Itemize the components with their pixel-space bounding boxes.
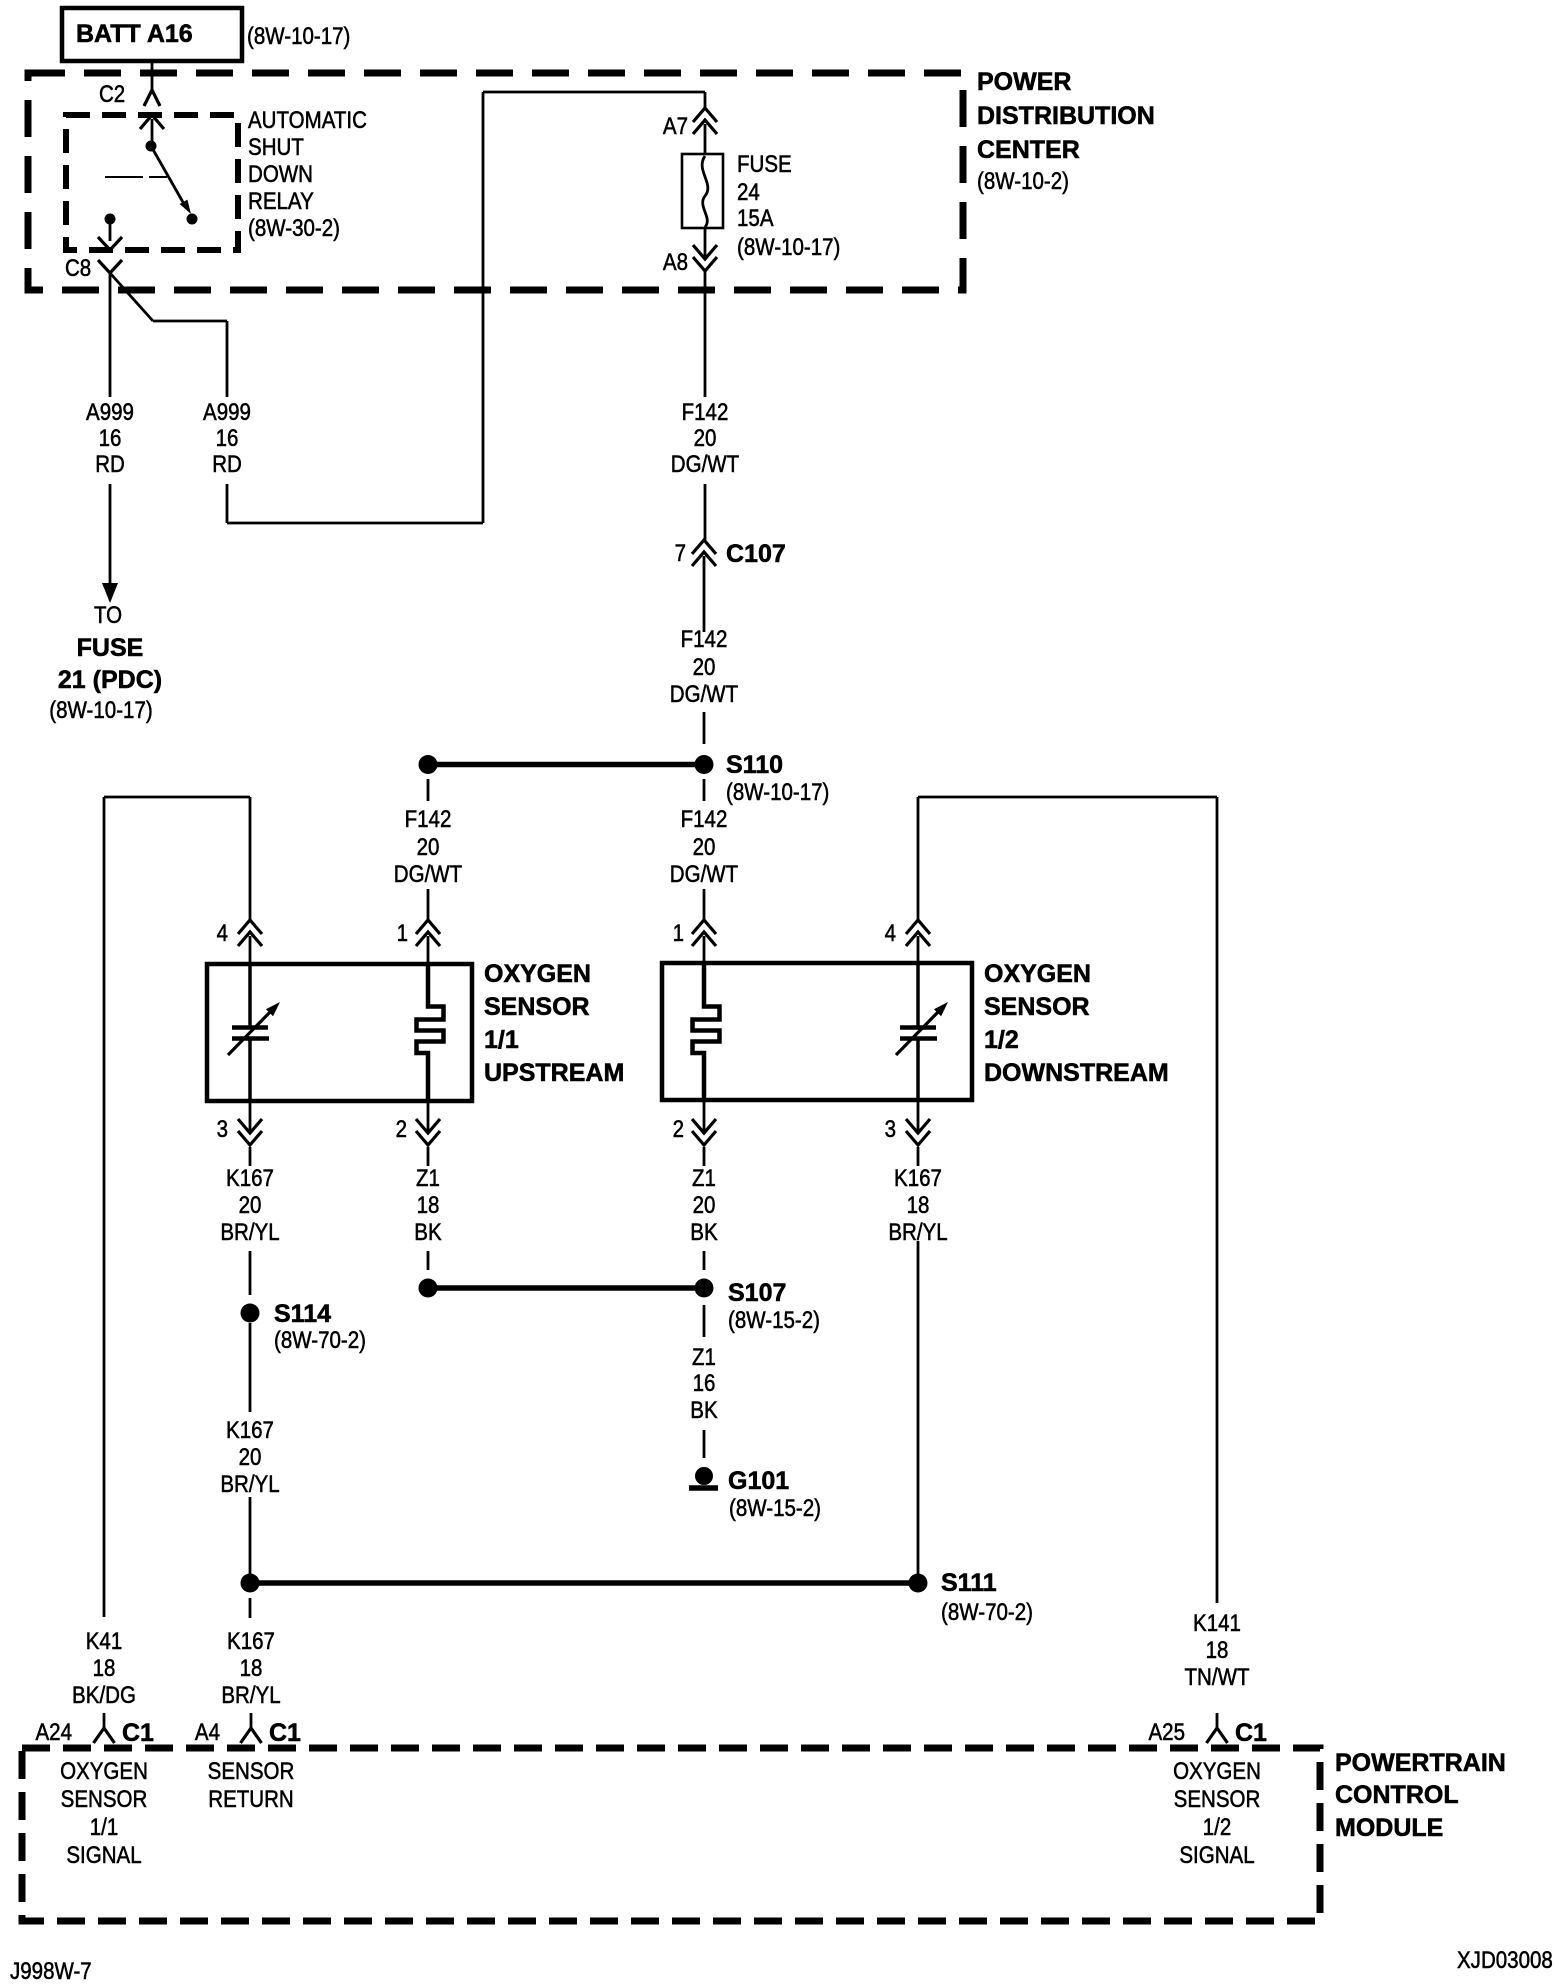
wire dash above G101 [703,1430,706,1458]
svg-text:24: 24 [737,179,760,206]
svg-text:SENSOR: SENSOR [208,1758,295,1785]
svg-text:20: 20 [417,834,440,861]
label wire F142 20 DG/WT below C107 [670,626,739,708]
svg-text:A25: A25 [1149,1719,1186,1746]
svg-text:OXYGEN: OXYGEN [484,960,591,988]
svg-text:RD: RD [212,451,242,478]
svg-text:C2: C2 [99,81,125,108]
wire dash above S107 [703,1251,706,1270]
label wire K167 18 BR/YL to PCM [221,1628,280,1709]
svg-text:SIGNAL: SIGNAL [1179,1842,1254,1869]
svg-text:(8W-10-17): (8W-10-17) [49,697,152,724]
svg-text:K167: K167 [226,1417,274,1444]
connector pin A24 C1 [36,1713,155,1747]
wire dash below left S110 tap [427,779,430,801]
svg-text:OXYGEN: OXYGEN [1173,1758,1261,1785]
svg-text:(8W-70-2): (8W-70-2) [274,1327,366,1354]
relay switch common contact [146,141,157,152]
label OXYGEN SENSOR 1/1 UPSTREAM [484,960,624,1087]
wire to sensor 1/1 pin 1 [427,889,430,920]
label wire A999 16 RD left [86,399,134,478]
splice S111 [241,1569,1034,1626]
svg-text:Z1: Z1 [416,1165,440,1192]
svg-text:A999: A999 [203,399,251,426]
label wire K141 18 TN/WT [1185,1610,1250,1691]
svg-text:1/2: 1/2 [984,1026,1019,1054]
powertrain control module dashed box [22,1748,1320,1921]
sensor 1/2 pin 4 connector [885,920,930,964]
svg-text:CENTER: CENTER [977,136,1080,164]
svg-text:DG/WT: DG/WT [671,451,740,478]
connector C2 [99,81,164,146]
svg-text:RD: RD [95,451,125,478]
connector pin A7 [663,108,717,154]
svg-text:1/1: 1/1 [484,1026,519,1054]
svg-text:A4: A4 [195,1719,220,1746]
svg-text:(8W-10-2): (8W-10-2) [977,168,1069,195]
svg-text:SENSOR: SENSOR [1174,1786,1261,1813]
svg-text:A8: A8 [663,249,688,276]
svg-text:TN/WT: TN/WT [1185,1664,1250,1691]
svg-text:Z1: Z1 [692,1165,716,1192]
wire BATT A16 to C2 [151,61,154,90]
label wire Z1 18 BK [414,1165,441,1246]
wire K167 down to S114 [249,1251,252,1295]
sensor 1/1 pin 1 connector [397,920,440,964]
svg-text:S111: S111 [941,1569,997,1597]
svg-text:DG/WT: DG/WT [670,861,739,888]
svg-text:RELAY: RELAY [248,188,314,215]
svg-text:BK: BK [414,1219,441,1246]
svg-text:20: 20 [693,654,716,681]
svg-text:C1: C1 [269,1719,301,1747]
svg-text:F142: F142 [681,806,728,833]
ground G101 [689,1467,821,1522]
sensor 1/2 heater element [693,963,720,1100]
svg-text:MODULE: MODULE [1335,1814,1443,1842]
svg-text:A7: A7 [663,113,688,140]
wire A999 left from C8 down [109,273,112,397]
power distribution center dashed box [28,73,963,290]
wire to sensor 1/2 pin 1 [703,889,706,920]
svg-text:15A: 15A [737,205,774,232]
connector pin A25 C1 [1149,1713,1268,1747]
wire dash below S107 [703,1305,706,1337]
svg-text:20: 20 [693,834,716,861]
svg-text:20: 20 [693,1192,716,1219]
svg-text:BR/YL: BR/YL [220,1219,279,1246]
svg-text:BR/YL: BR/YL [220,1471,279,1498]
wire dash above S110 [703,712,706,744]
wire stub below pin 3 sensor 1/1 [249,1147,252,1166]
svg-text:20: 20 [239,1444,262,1471]
relay output arrow to C8 [98,219,122,250]
wire down to C107 [704,484,707,540]
svg-text:BR/YL: BR/YL [221,1682,280,1709]
svg-text:FUSE: FUSE [737,151,792,178]
svg-text:SENSOR: SENSOR [484,993,590,1021]
svg-text:J998W-7: J998W-7 [10,1958,92,1985]
wire dash below S110 [703,779,706,801]
svg-text:20: 20 [694,425,717,452]
sensor 1/2 pin 3 connector [885,1100,930,1145]
wire K167 18 from sensor 1/2 pin 3 down to S111 [917,1241,920,1574]
svg-text:7: 7 [675,540,686,567]
svg-text:G101: G101 [728,1467,789,1495]
svg-text:DG/WT: DG/WT [670,681,739,708]
wire K167 to S111 junction [249,1497,252,1574]
svg-text:1: 1 [673,920,684,947]
svg-text:OXYGEN: OXYGEN [60,1758,148,1785]
sensor 1/2 pin 1 connector [673,920,716,964]
label FUSE 24 15A [737,151,840,261]
label OXYGEN SENSOR 1/2 DOWNSTREAM [984,960,1169,1087]
svg-text:BATT A16: BATT A16 [76,20,193,48]
relay K1 automatic shut down relay dashed box [66,115,238,250]
label wire F142 20 DG/WT right branch [670,806,739,888]
label wire F142 20 DG/WT [671,399,740,478]
svg-text:(8W-15-2): (8W-15-2) [729,1495,821,1522]
relay switch arm with arrowhead [151,146,191,214]
svg-text:18: 18 [240,1655,263,1682]
svg-text:C1: C1 [122,1719,154,1747]
wire dash below S111 junction [249,1598,252,1618]
label wire K41 18 BK/DG [72,1628,136,1709]
svg-text:F142: F142 [682,399,729,426]
label pin A24 OXYGEN SENSOR 1/1 SIGNAL [60,1758,148,1869]
svg-text:UPSTREAM: UPSTREAM [484,1059,624,1087]
svg-text:18: 18 [907,1192,930,1219]
svg-text:(8W-10-17): (8W-10-17) [247,23,350,50]
wire A999 right branch from C8 [110,273,227,397]
svg-text:Z1: Z1 [692,1344,716,1371]
svg-text:1/2: 1/2 [1203,1814,1232,1841]
svg-text:21 (PDC): 21 (PDC) [58,666,162,694]
svg-text:DISTRIBUTION: DISTRIBUTION [977,102,1155,130]
svg-text:2: 2 [673,1116,684,1143]
battery feed box BATT A16 [62,8,242,61]
svg-text:TO: TO [94,602,122,629]
svg-text:SENSOR: SENSOR [984,993,1090,1021]
wire dash above S107 left [427,1251,430,1270]
svg-text:4: 4 [217,920,228,947]
label pin A4 SENSOR RETURN [208,1758,295,1813]
svg-text:16: 16 [693,1370,716,1397]
wire stub below pin 2 sensor 1/1 [427,1147,430,1166]
svg-text:18: 18 [417,1192,440,1219]
svg-text:18: 18 [93,1655,116,1682]
splice S107 [419,1279,821,1335]
svg-text:POWER: POWER [977,68,1071,96]
svg-text:(8W-15-2): (8W-15-2) [728,1307,820,1334]
svg-text:F142: F142 [681,626,728,653]
svg-text:(8W-10-17): (8W-10-17) [726,779,829,806]
relay switch thrown contact [187,214,198,225]
connector C107 pin 7 [675,540,786,632]
sensor 1/2 pin 2 connector [673,1100,716,1145]
svg-text:DG/WT: DG/WT [394,861,463,888]
connector C8 [65,255,122,282]
svg-text:1: 1 [397,920,408,947]
svg-text:16: 16 [216,425,239,452]
svg-text:C1: C1 [1235,1719,1267,1747]
label wire Z1 16 BK [690,1344,717,1424]
wire below S114 [249,1323,252,1412]
svg-text:S110: S110 [726,751,783,779]
svg-text:C107: C107 [726,540,786,568]
label wire F142 20 DG/WT left branch [394,806,463,888]
wire F142 from A8 down [704,271,707,397]
svg-text:K141: K141 [1193,1610,1241,1637]
svg-text:K167: K167 [227,1628,275,1655]
sensor 1/2 variable cell element [896,963,948,1100]
svg-text:C8: C8 [65,255,91,282]
svg-text:A999: A999 [86,399,134,426]
svg-text:1/1: 1/1 [90,1814,119,1841]
wire K141 signal from sensor 1/2 pin 4 to PCM A25 [918,797,1217,1603]
svg-text:K167: K167 [226,1165,274,1192]
label wire K167 20 BR/YL below S114 [220,1417,279,1498]
svg-text:BK/DG: BK/DG [72,1682,136,1709]
wire K41 signal from sensor 1/1 pin 4 to PCM A24 [104,797,250,1617]
label POWER DISTRIBUTION CENTER [977,68,1155,195]
wire stub below pin 2 sensor 1/2 [703,1147,706,1166]
sensor 1/1 pin 2 connector [396,1101,440,1145]
svg-text:RETURN: RETURN [208,1786,294,1813]
relay output contact [105,214,116,225]
fuse 24 15A [682,154,723,228]
svg-text:XJD03008: XJD03008 [1457,1947,1553,1974]
splice S110 [419,751,830,806]
svg-text:(8W-10-17): (8W-10-17) [737,234,840,261]
oxygen sensor 1/2 downstream box [662,963,972,1100]
svg-text:(8W-70-2): (8W-70-2) [941,1599,1033,1626]
svg-text:FUSE: FUSE [77,634,144,662]
svg-text:SIGNAL: SIGNAL [66,1842,141,1869]
oxygen sensor 1/1 upstream box [207,964,472,1101]
splice S114 [241,1300,367,1354]
svg-text:3: 3 [885,1116,896,1143]
wire to fuse 21 with arrowhead [102,484,118,603]
svg-text:BK: BK [690,1397,717,1424]
svg-text:18: 18 [1206,1637,1229,1664]
label pin A25 OXYGEN SENSOR 1/2 SIGNAL [1173,1758,1261,1869]
sensor 1/1 variable cell element [228,964,280,1101]
svg-text:4: 4 [885,920,896,947]
sensor 1/1 heater element [417,964,444,1101]
sensor 1/1 pin 3 connector [217,1101,262,1145]
wire stub below pin 3 sensor 1/2 [917,1147,920,1166]
svg-text:SHUT: SHUT [248,134,304,161]
relay mechanical linkage dashed line [105,176,167,178]
label AUTOMATIC SHUT DOWN RELAY [248,107,367,242]
svg-text:DOWNSTREAM: DOWNSTREAM [984,1059,1169,1087]
svg-text:CONTROL: CONTROL [1335,1781,1459,1809]
svg-text:OXYGEN: OXYGEN [984,960,1091,988]
svg-text:20: 20 [239,1192,262,1219]
connector pin A8 [663,228,717,276]
label wire A999 16 RD right [203,399,251,478]
label TO FUSE 21 (PDC) [49,602,162,724]
svg-text:K41: K41 [86,1628,123,1655]
svg-text:(8W-30-2): (8W-30-2) [248,215,340,242]
svg-text:POWERTRAIN: POWERTRAIN [1335,1749,1506,1777]
label wire Z1 20 BK [690,1165,717,1246]
svg-text:16: 16 [99,425,122,452]
svg-text:DOWN: DOWN [248,161,313,188]
svg-text:A24: A24 [36,1719,73,1746]
svg-text:AUTOMATIC: AUTOMATIC [248,107,367,134]
svg-text:K167: K167 [894,1165,942,1192]
svg-text:S107: S107 [728,1279,786,1307]
connector pin A4 C1 [195,1713,301,1747]
svg-text:BK: BK [690,1219,717,1246]
svg-text:2: 2 [396,1116,407,1143]
wire from A999 right up to fuse A7 [227,92,705,523]
label POWERTRAIN CONTROL MODULE [1335,1749,1506,1842]
svg-text:F142: F142 [405,806,452,833]
label wire K167 20 BR/YL [220,1165,279,1246]
svg-text:S114: S114 [274,1300,331,1328]
sensor 1/1 pin 4 connector [217,920,262,964]
label wire K167 18 BR/YL [888,1165,947,1246]
svg-text:3: 3 [217,1116,228,1143]
svg-text:SENSOR: SENSOR [61,1786,148,1813]
